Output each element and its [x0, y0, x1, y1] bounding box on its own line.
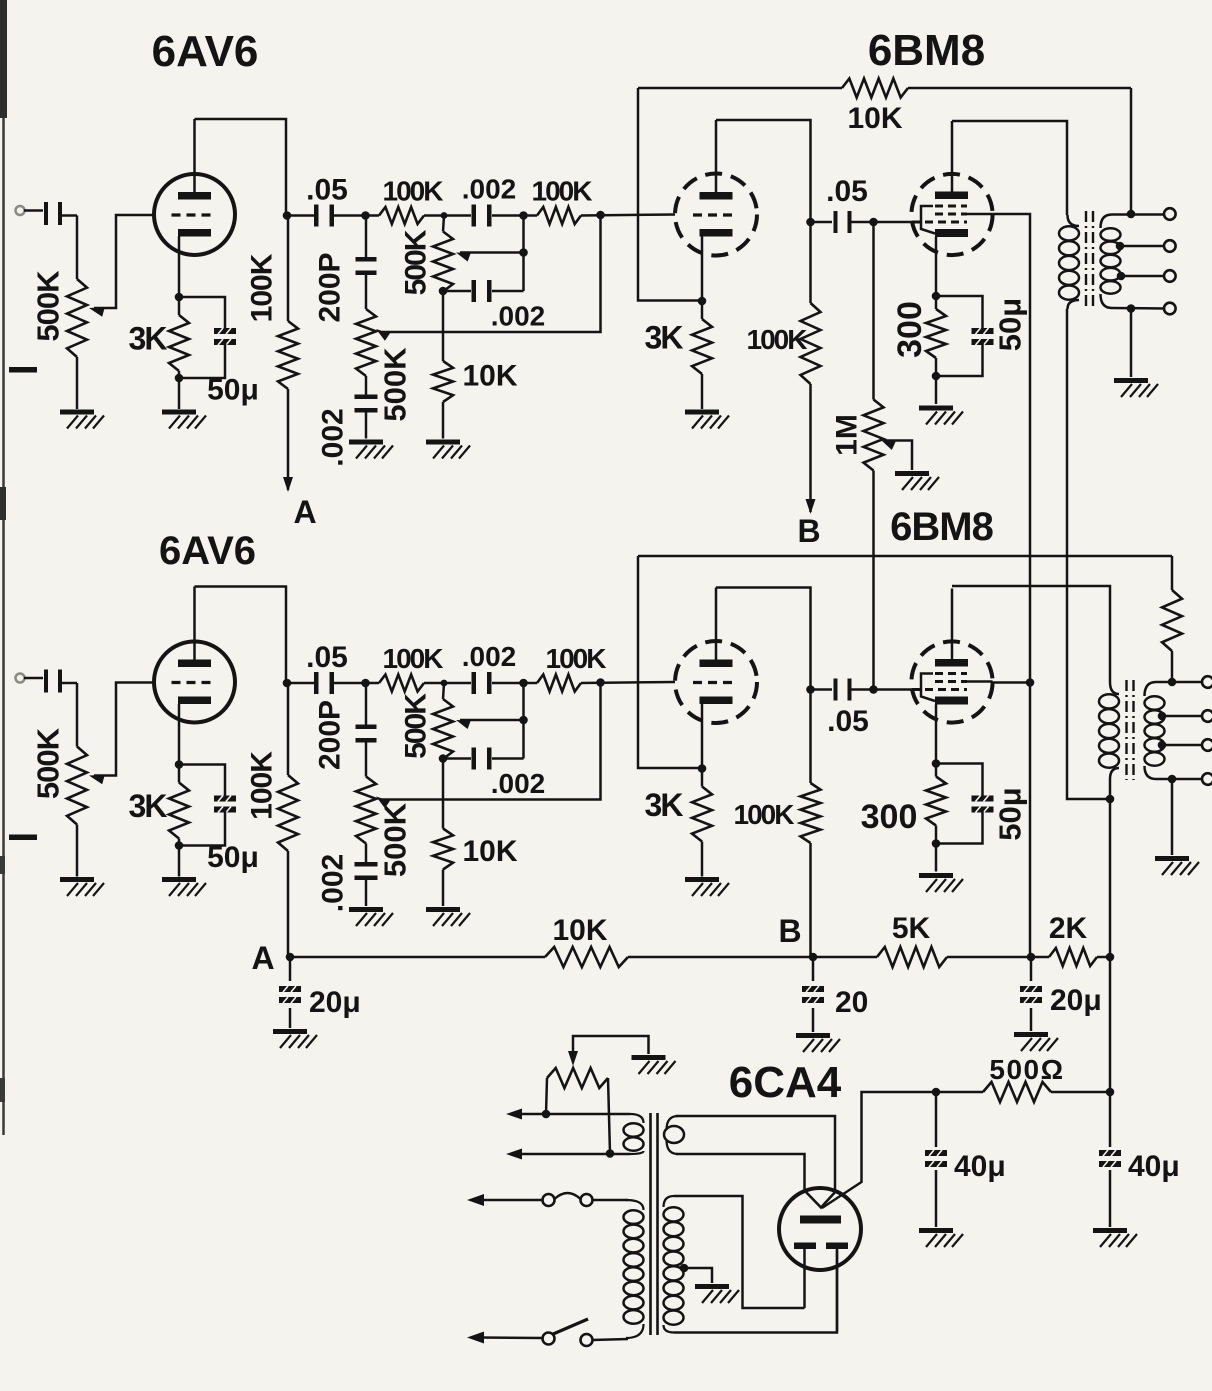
capacitor .002 mid	[472, 748, 492, 770]
label 300	[891, 301, 929, 358]
resistor 100K tone	[379, 675, 424, 692]
svg-text:200P: 200P	[314, 252, 347, 322]
wire	[178, 378, 181, 409]
node	[932, 372, 941, 381]
label 5K	[892, 912, 931, 945]
label 50u	[993, 298, 1028, 351]
vacuum tube 6AV6 V2	[154, 642, 235, 723]
terminal	[1164, 303, 1176, 315]
wire heater line2	[506, 1149, 630, 1160]
wire	[442, 759, 445, 829]
svg-text:10K: 10K	[462, 835, 517, 868]
scan page edge	[0, 0, 7, 1135]
potentiometer 500K treble VR	[433, 232, 471, 292]
wire mains line1	[467, 1194, 628, 1206]
svg-text:.002: .002	[462, 174, 517, 205]
transformer PT core	[651, 1113, 658, 1335]
ground	[1014, 1032, 1058, 1051]
wire	[443, 290, 524, 293]
wire cathode lead	[701, 237, 704, 302]
label 3K	[129, 788, 168, 824]
wire left plate lead	[803, 1249, 806, 1308]
capacitor .05 coupling 2	[834, 211, 852, 233]
label 3K	[645, 320, 684, 356]
wire cathode lead	[178, 237, 181, 298]
input terminal J2	[16, 674, 25, 683]
label 50u	[207, 374, 259, 407]
label .05 ch1 second	[826, 175, 868, 208]
svg-text:40μ: 40μ	[954, 1150, 1006, 1183]
svg-text:2K: 2K	[1049, 912, 1088, 945]
transformer OPT1 primary	[1059, 215, 1079, 309]
wire plate lead	[715, 588, 718, 660]
capacitor 20 at B	[802, 957, 824, 1032]
wire plate to coupling	[716, 120, 811, 222]
ground	[1114, 378, 1158, 397]
svg-text:500K: 500K	[31, 270, 66, 342]
label .002	[462, 641, 517, 672]
ground	[919, 1228, 963, 1247]
node	[542, 1110, 551, 1119]
wire cathode lead	[178, 704, 181, 765]
capacitor .002 tone	[472, 205, 492, 227]
switch S1	[543, 1319, 593, 1346]
node	[1168, 775, 1177, 784]
svg-text:500K: 500K	[400, 693, 433, 759]
resistor 10K tone	[433, 829, 453, 870]
node	[1116, 242, 1125, 251]
wire	[443, 216, 444, 232]
wire	[365, 683, 368, 726]
wire plate lead	[715, 120, 718, 192]
svg-text:.002: .002	[462, 641, 517, 672]
ground	[1155, 856, 1199, 875]
svg-text:3K: 3K	[645, 787, 684, 823]
node B	[809, 953, 818, 962]
label .05	[306, 641, 348, 674]
svg-text:.002: .002	[491, 301, 546, 332]
ground	[632, 1055, 676, 1074]
vacuum tube 6BM8 pentode V2c	[911, 641, 992, 722]
svg-text:50μ: 50μ	[207, 841, 259, 874]
svg-text:500K: 500K	[378, 802, 413, 877]
label 10K tone	[462, 835, 517, 868]
node	[283, 679, 292, 688]
vacuum tube 6BM8 pentode V1c	[911, 174, 992, 255]
label .002	[462, 174, 517, 205]
node	[1026, 678, 1035, 687]
svg-text:200P: 200P	[314, 700, 347, 770]
input ground bar	[9, 835, 37, 841]
node	[1127, 210, 1136, 219]
svg-text:50μ: 50μ	[993, 298, 1028, 351]
capacitor 20u at A	[279, 957, 301, 1028]
svg-text:A: A	[293, 494, 316, 530]
wire	[701, 769, 704, 877]
potentiometer 500K volume VR1	[67, 279, 105, 357]
wire	[522, 683, 525, 759]
wire	[442, 870, 445, 907]
capacitor .002 bass	[355, 395, 378, 413]
ground	[273, 1029, 317, 1048]
terminal	[1202, 710, 1212, 722]
resistor 5K rail	[877, 947, 947, 967]
wire tap2	[1162, 715, 1202, 718]
label 500K bass	[378, 347, 413, 422]
label 100K	[383, 176, 444, 207]
label 40u	[1128, 1150, 1180, 1183]
wire	[365, 376, 368, 396]
node	[1158, 741, 1167, 750]
resistor 100K plate load ch2	[278, 683, 298, 957]
node	[1106, 1088, 1115, 1097]
vacuum tube 6BM8 triode V2b	[675, 641, 757, 723]
wire tap3	[1119, 275, 1164, 278]
wire OPT1 primary bottom to OPT2	[1067, 309, 1110, 799]
ground	[426, 907, 470, 926]
svg-text:5K: 5K	[892, 912, 931, 945]
wire feedback right leg	[1130, 88, 1133, 214]
wire to pentode grid	[874, 688, 913, 691]
node	[361, 211, 370, 220]
resistor 10K feedback ch1	[842, 79, 908, 98]
wire	[524, 215, 676, 216]
resistor 100K to B ch2	[801, 690, 821, 957]
wire plate lead	[193, 119, 196, 192]
wire tap4	[1112, 307, 1164, 310]
ground	[919, 406, 963, 425]
wire	[331, 214, 365, 217]
capacitor 50u cathode bypass	[179, 297, 236, 378]
wire	[287, 682, 317, 685]
svg-text:50μ: 50μ	[993, 787, 1028, 840]
node	[441, 212, 448, 219]
wire pentode cathode lead	[935, 705, 938, 764]
label 300	[861, 798, 918, 836]
wire	[76, 357, 79, 409]
svg-text:300: 300	[861, 798, 918, 836]
resistor 3K cathode 6BM8	[692, 319, 712, 374]
capacitor 50u cathode bypass	[179, 765, 236, 846]
svg-text:B: B	[778, 913, 801, 949]
label .002 bass	[317, 854, 350, 912]
label tube 6AV6 channel2	[159, 529, 256, 573]
label 500ohm	[989, 1054, 1064, 1085]
fuse	[543, 1193, 593, 1206]
input coupling capacitor	[44, 202, 62, 225]
svg-text:100K: 100K	[532, 176, 593, 207]
wire	[811, 688, 833, 691]
wire	[331, 682, 365, 685]
label 20	[835, 986, 868, 1019]
label 100K plate load	[246, 253, 279, 322]
label 200P	[314, 252, 347, 322]
wire feedback top ch1	[638, 87, 1131, 90]
ground	[162, 877, 206, 896]
wire	[365, 844, 368, 864]
capacitor 40u right	[1099, 1092, 1121, 1227]
svg-text:40μ: 40μ	[1128, 1150, 1180, 1183]
wire plate to coupling	[195, 587, 287, 684]
wire volume wiper to grid	[94, 683, 154, 776]
resistor 100K tone	[537, 675, 581, 692]
label 500K	[31, 727, 66, 799]
label 500K	[31, 270, 66, 342]
wire	[24, 678, 77, 683]
wire	[365, 412, 368, 439]
label 100K plate load	[246, 751, 279, 820]
wire screen grids to B+ rail	[993, 214, 1030, 957]
node	[932, 839, 941, 848]
resistor 100K plate load ch1	[278, 216, 298, 493]
wire	[1130, 309, 1133, 378]
wire	[443, 757, 524, 760]
transformer OPT2 primary	[1099, 682, 1119, 779]
capacitor 200P	[356, 725, 377, 743]
svg-text:100K: 100K	[246, 253, 279, 322]
node HV center tap	[680, 1264, 689, 1273]
resistor 500 ohm	[936, 1082, 1110, 1102]
capacitor 20u mid	[1020, 957, 1042, 1031]
wire pentode plate lead	[951, 121, 954, 192]
wire pentode plate lead	[951, 589, 954, 660]
node	[806, 685, 815, 694]
wire	[701, 301, 704, 409]
label 20u	[309, 986, 361, 1019]
ground	[685, 877, 729, 896]
transformer PT HV secondary	[664, 1196, 684, 1333]
ground	[685, 410, 729, 429]
label 2K	[1049, 912, 1088, 945]
transformer PT primary	[624, 1200, 644, 1338]
svg-text:6BM8: 6BM8	[868, 26, 985, 75]
terminal	[1164, 270, 1176, 282]
node	[698, 297, 707, 306]
wire	[935, 296, 938, 376]
node	[1106, 795, 1115, 804]
label tube 6CA4	[729, 1058, 842, 1107]
svg-text:500K: 500K	[400, 229, 433, 295]
label 40u	[954, 1150, 1006, 1183]
vacuum tube 6BM8 triode V1b	[675, 174, 757, 256]
node	[519, 716, 528, 725]
vacuum tube 6AV6 V1	[154, 174, 235, 255]
label 100K	[383, 643, 444, 674]
capacitor 200P	[356, 257, 377, 275]
resistor 3K cathode	[169, 783, 189, 839]
wire plate lead	[193, 587, 196, 660]
node A	[286, 953, 295, 962]
svg-text:3K: 3K	[645, 320, 684, 356]
node	[175, 293, 184, 302]
wire	[442, 402, 445, 439]
svg-text:100K: 100K	[246, 751, 279, 820]
svg-text:3K: 3K	[129, 788, 168, 824]
wire tap4	[1156, 778, 1202, 781]
node A label	[293, 494, 316, 530]
wire	[676, 1116, 835, 1190]
label 50u	[993, 787, 1028, 840]
wire screen to rail	[993, 681, 1030, 684]
resistor 300 cathode	[926, 777, 946, 826]
wire to pentode grid	[874, 221, 913, 224]
node	[869, 685, 878, 694]
ground	[60, 877, 104, 896]
svg-text:500Ω: 500Ω	[989, 1054, 1064, 1085]
wire plate to coupling	[716, 588, 811, 690]
label 3K	[129, 321, 168, 357]
wire bass wiper	[382, 683, 601, 800]
node	[1027, 953, 1036, 962]
potentiometer 500K volume VR2	[67, 747, 105, 825]
wire	[365, 879, 368, 906]
input coupling capacitor	[44, 670, 62, 693]
wire	[444, 682, 523, 685]
resistor 10K rail	[545, 947, 628, 967]
wire feedback top ch2	[638, 555, 1172, 558]
resistor 3K cathode	[169, 315, 189, 371]
wire heater line1	[506, 1109, 630, 1120]
wire plate to coupling	[195, 119, 287, 216]
node	[519, 679, 528, 688]
wire OPT2 primary bottom to rail	[1109, 779, 1112, 957]
ground	[895, 471, 939, 490]
node	[932, 292, 941, 301]
svg-text:100K: 100K	[546, 643, 607, 674]
label .002 mid	[491, 301, 546, 332]
resistor feedback ch2	[1162, 556, 1182, 682]
ground	[162, 410, 206, 429]
capacitor 40u left	[925, 1092, 947, 1227]
resistor 100K to B ch1	[801, 222, 821, 514]
node	[175, 760, 184, 769]
wire	[178, 765, 181, 846]
input ground bar	[9, 367, 37, 373]
svg-text:A: A	[251, 940, 274, 976]
svg-text:.002: .002	[317, 408, 350, 466]
capacitor .05 coupling	[314, 205, 334, 227]
potentiometer 500K bass VR	[356, 309, 390, 376]
wire	[442, 291, 445, 361]
wire	[684, 1268, 712, 1283]
wire HV top to left plate	[674, 1196, 805, 1308]
capacitor .05 coupling 2	[834, 679, 852, 701]
ground	[919, 873, 963, 892]
node	[519, 248, 528, 257]
label .05	[306, 174, 348, 207]
transformer OPT2 secondary	[1145, 682, 1165, 779]
resistor 3K cathode 6BM8	[692, 787, 712, 842]
svg-text:20μ: 20μ	[1050, 984, 1102, 1017]
node	[1158, 712, 1167, 721]
node	[175, 841, 184, 850]
wire	[524, 682, 676, 683]
svg-text:.002: .002	[317, 854, 350, 912]
wire	[178, 846, 181, 877]
label 3K	[645, 787, 684, 823]
svg-text:6BM8: 6BM8	[890, 505, 993, 549]
label B	[778, 913, 801, 949]
label 10K rail	[552, 914, 607, 947]
label 500K treble	[400, 229, 433, 295]
ground	[349, 907, 393, 926]
capacitor 50u pentode bypass	[936, 764, 994, 844]
wire	[366, 214, 445, 217]
label 500K bass	[378, 802, 413, 877]
label .05 ch2 second	[827, 705, 869, 738]
svg-text:.002: .002	[491, 768, 546, 799]
label 10K tone	[462, 360, 517, 393]
wire pentode cathode lead	[935, 237, 938, 296]
svg-text:500K: 500K	[378, 347, 413, 422]
wire	[848, 688, 874, 691]
terminal	[1202, 773, 1212, 785]
wire	[365, 216, 368, 259]
wire mains line2	[467, 1332, 628, 1344]
node	[519, 211, 528, 220]
wire	[287, 214, 317, 217]
svg-text:3K: 3K	[129, 321, 168, 357]
resistor 100K tone	[537, 207, 581, 224]
label 1M	[831, 414, 864, 456]
wire	[676, 1154, 805, 1190]
wire	[76, 825, 79, 877]
wire	[952, 121, 1067, 215]
resistor 2K rail	[1049, 948, 1097, 966]
wire tap1	[1156, 681, 1202, 684]
wire	[638, 556, 702, 768]
svg-text:300: 300	[891, 301, 929, 358]
wire	[935, 376, 938, 404]
wire tap2	[1119, 245, 1164, 248]
potentiometer 500K bass VR	[356, 777, 390, 844]
potentiometer 1M	[864, 222, 884, 690]
vacuum tube 6CA4 rectifier	[779, 1188, 861, 1270]
label .002 bass	[317, 408, 350, 466]
terminal	[1164, 240, 1176, 252]
wire right plate lead	[836, 1249, 839, 1331]
label 200P	[314, 700, 347, 770]
wire B+ from rectifier	[822, 1092, 936, 1208]
wire tap3	[1162, 744, 1202, 747]
node	[1127, 304, 1136, 313]
wire	[1109, 957, 1112, 1092]
node	[283, 211, 292, 220]
node	[869, 218, 878, 227]
label 100K	[546, 643, 607, 674]
wire cathode lead	[701, 704, 704, 769]
wire	[365, 742, 368, 777]
wire	[178, 297, 181, 378]
svg-text:100K: 100K	[383, 643, 444, 674]
node	[361, 679, 370, 688]
node	[1117, 272, 1126, 281]
transformer OPT1 core	[1086, 211, 1093, 309]
transformer PT rectifier heater winding	[664, 1116, 684, 1154]
svg-text:50μ: 50μ	[207, 374, 259, 407]
node	[1168, 678, 1177, 687]
node	[932, 1088, 941, 1097]
svg-text:B: B	[797, 513, 820, 549]
svg-text:.05: .05	[306, 641, 348, 674]
svg-text:6AV6: 6AV6	[152, 27, 259, 76]
resistor 10K tone	[433, 361, 453, 402]
transformer PT heater winding 6.3V	[624, 1114, 644, 1154]
label A	[251, 940, 274, 976]
svg-text:10K: 10K	[462, 360, 517, 393]
wire HV bottom to right plate	[674, 1250, 837, 1333]
wire volume wiper to grid	[94, 215, 154, 308]
